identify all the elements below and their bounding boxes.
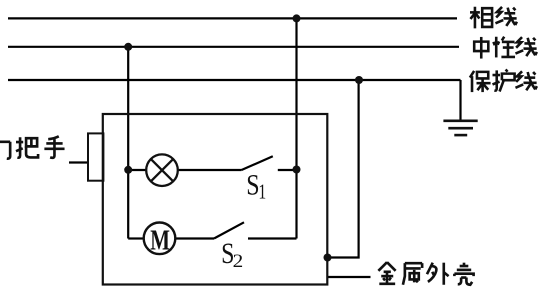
junction dot S1 right bbox=[293, 166, 301, 174]
label 相线 bbox=[470, 7, 517, 29]
label 金属外壳 bbox=[378, 262, 473, 285]
label 中性线 bbox=[474, 37, 537, 59]
label 门把手 bbox=[0, 136, 65, 159]
switch S1 fixed contact bbox=[278, 169, 297, 171]
wire neutral line bbox=[8, 46, 459, 48]
metal case enclosure box bbox=[103, 114, 327, 285]
door handle pointer line bbox=[69, 161, 88, 163]
wire live drop bbox=[295, 18, 297, 238]
ground symbol bbox=[443, 121, 477, 135]
wire lamp to switch S1 bbox=[178, 169, 242, 171]
switch S1 blade bbox=[242, 156, 273, 170]
svg-text:1: 1 bbox=[258, 180, 266, 204]
lamp EL1 bbox=[146, 154, 178, 186]
label 保护线 bbox=[470, 69, 537, 92]
switch S2 fixed contact bbox=[248, 237, 297, 239]
wire protective drop bbox=[328, 80, 359, 258]
metal case pointer line bbox=[327, 276, 371, 278]
junction dot on protective line bbox=[355, 76, 363, 84]
wire motor feed bbox=[128, 237, 144, 239]
door handle bbox=[88, 133, 103, 180]
junction dot on neutral line bbox=[124, 43, 132, 51]
wire phase line bbox=[8, 17, 457, 19]
svg-text:2: 2 bbox=[233, 251, 244, 272]
wire neutral bus drop bbox=[127, 47, 129, 239]
svg-text:M: M bbox=[150, 224, 170, 256]
junction dot lamp left bbox=[124, 166, 132, 174]
junction dot on phase line bbox=[293, 14, 301, 22]
wire lamp feed bbox=[128, 169, 146, 171]
wire protective line bbox=[8, 79, 461, 81]
switch S2 blade bbox=[214, 222, 244, 238]
motor M bbox=[144, 223, 176, 255]
wire ground drop bbox=[459, 80, 461, 121]
junction dot case right bbox=[324, 254, 332, 262]
svg-text:S: S bbox=[246, 168, 259, 201]
wire motor to switch S2 bbox=[175, 237, 214, 239]
